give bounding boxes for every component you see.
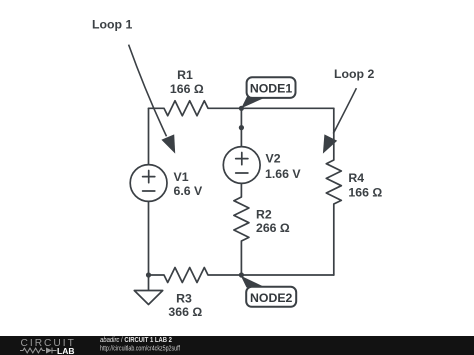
svg-text:R3: R3: [176, 291, 192, 305]
svg-text:http://circuitlab.com/cr4ckz5p: http://circuitlab.com/cr4ckz5p2suff: [100, 343, 181, 352]
svg-text:V2: V2: [266, 152, 281, 166]
svg-text:1.66 V: 1.66 V: [265, 167, 301, 181]
svg-text:LAB: LAB: [57, 346, 74, 355]
svg-text:6.6 V: 6.6 V: [174, 184, 204, 198]
svg-text:R1: R1: [177, 68, 193, 82]
svg-text:Loop 1: Loop 1: [92, 18, 132, 32]
svg-text:NODE1: NODE1: [250, 82, 293, 96]
svg-text:R4: R4: [348, 171, 364, 185]
svg-text:166 Ω: 166 Ω: [170, 82, 204, 96]
svg-text:166 Ω: 166 Ω: [348, 185, 382, 199]
svg-text:R2: R2: [256, 207, 272, 221]
svg-text:NODE2: NODE2: [250, 291, 293, 305]
svg-text:366 Ω: 366 Ω: [168, 305, 202, 319]
svg-text:Loop 2: Loop 2: [334, 67, 374, 81]
svg-text:266 Ω: 266 Ω: [256, 221, 290, 235]
svg-text:V1: V1: [174, 170, 189, 184]
